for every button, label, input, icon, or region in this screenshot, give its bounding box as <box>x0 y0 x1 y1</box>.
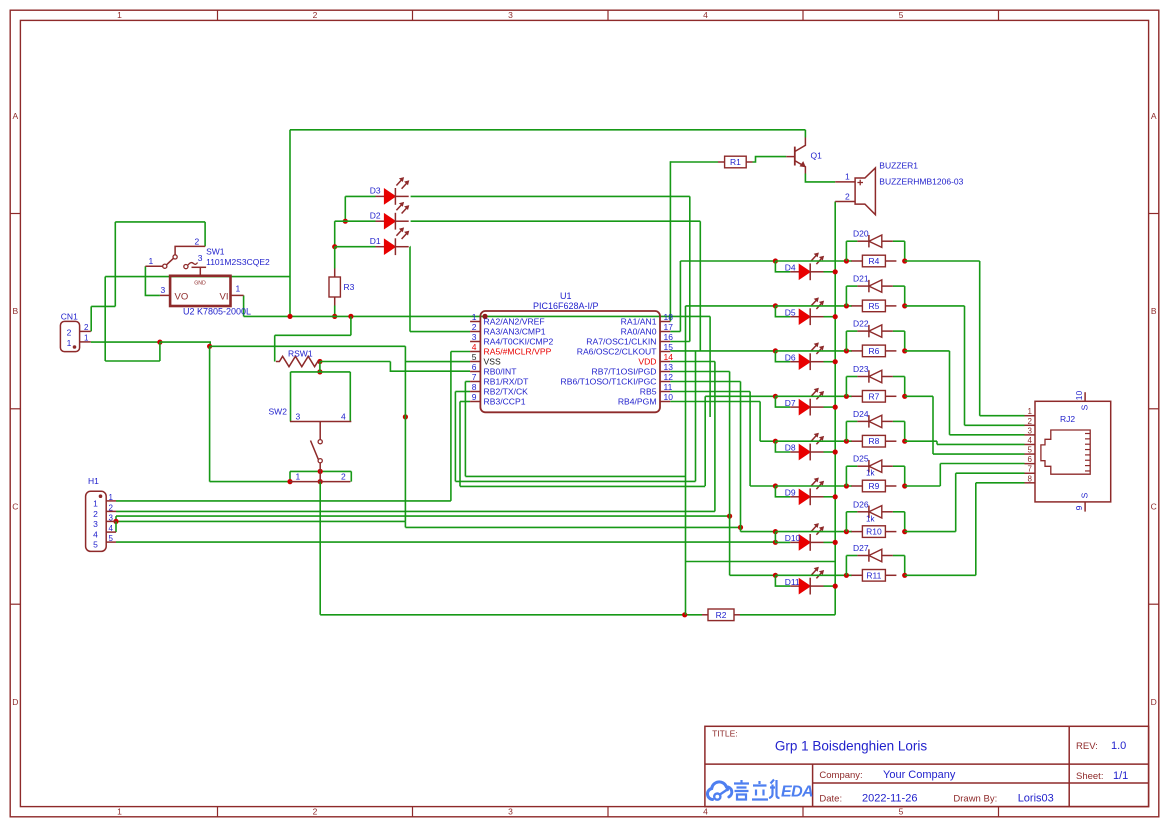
wire H1 pin1 riser <box>450 352 452 501</box>
wire SW2 pin1 feed <box>210 481 290 483</box>
svg-text:RJ2: RJ2 <box>1060 414 1075 424</box>
node R6 right junction <box>902 348 907 353</box>
wire R11 to RJ2 run <box>905 574 976 576</box>
wire Q1 emitter to buzzer pin1 <box>805 174 835 182</box>
wire pin2 RA3 line <box>410 331 470 333</box>
wire diode loop right riser D23 <box>904 377 906 397</box>
switch SW2 pins34 bar <box>290 421 351 423</box>
svg-text:RSW1: RSW1 <box>288 349 313 359</box>
wire diode loop top right D23 <box>893 376 905 378</box>
svg-text:D: D <box>12 697 18 707</box>
wire collector top rail <box>290 129 805 131</box>
svg-text:RB1/RX/DT: RB1/RX/DT <box>484 377 530 387</box>
node D10 led junction <box>773 540 778 545</box>
header H1 body <box>86 491 107 551</box>
wire D4 main <box>680 260 775 262</box>
wire D1 cathode drop <box>409 247 411 332</box>
svg-text:Drawn By:: Drawn By: <box>953 794 997 805</box>
node D9 branch junction <box>773 483 778 488</box>
switch SW1 pin2 arm <box>175 246 205 254</box>
wire pin8 drop <box>454 392 456 482</box>
wire RSW1 lower stub <box>319 362 321 372</box>
resistor R2 left lead <box>702 614 708 616</box>
U1 right pin stubs <box>660 321 670 323</box>
resistor R9 <box>851 485 862 487</box>
svg-text:SW1: SW1 <box>206 247 225 257</box>
node D10 branch junction <box>773 529 778 534</box>
svg-text:D2: D2 <box>370 211 381 221</box>
svg-text:1: 1 <box>84 334 89 343</box>
svg-text:1: 1 <box>93 498 98 508</box>
svg-text:8: 8 <box>472 382 477 392</box>
wire diode loop left riser D4 <box>845 241 847 261</box>
wire diode loop right riser D20 <box>904 241 906 261</box>
svg-text:12: 12 <box>664 372 674 382</box>
U2 pin1 lead <box>231 294 244 296</box>
svg-text:C: C <box>1151 502 1157 512</box>
node y516 right junction <box>727 514 732 519</box>
switch SW1 pin3 lead <box>192 266 207 268</box>
switch SW2 contact top <box>318 440 322 444</box>
svg-text:RA6/OSC2/CLKOUT: RA6/OSC2/CLKOUT <box>577 347 658 357</box>
svg-text:3: 3 <box>296 412 301 422</box>
wire R5 to RJ2 run <box>905 305 965 307</box>
svg-text:2: 2 <box>67 328 72 338</box>
resistor R11 <box>851 574 862 576</box>
wire R7 to RJ2 run <box>905 395 933 397</box>
wire R4 RJ2 entry <box>980 415 1025 417</box>
wire y306 jog <box>91 305 115 307</box>
svg-text:R8: R8 <box>868 436 879 446</box>
wire D7 branch jog <box>775 396 790 407</box>
svg-text:5: 5 <box>899 10 904 20</box>
svg-text:REV:: REV: <box>1076 741 1098 752</box>
svg-text:RB2/TX/CK: RB2/TX/CK <box>484 387 529 397</box>
node diode loop left junction row D4 <box>844 258 849 263</box>
wire R3 bottom <box>334 306 336 317</box>
svg-text:D10: D10 <box>785 533 801 543</box>
node diode loop left junction row D8 <box>844 439 849 444</box>
svg-text:R4: R4 <box>868 256 879 266</box>
U2 pin3 lead <box>160 294 170 296</box>
node R10 right junction <box>902 529 907 534</box>
wire R1 to Q1 base jog <box>753 157 787 162</box>
svg-text:VI: VI <box>220 292 229 303</box>
node D5 cathode junction <box>833 314 838 319</box>
svg-text:4: 4 <box>703 807 708 817</box>
svg-text:D25: D25 <box>853 454 869 464</box>
svg-text:D8: D8 <box>785 443 796 453</box>
wire diode loop top left D4 <box>846 240 857 242</box>
svg-text:2: 2 <box>93 509 98 519</box>
svg-text:D21: D21 <box>853 274 869 284</box>
node D6 cathode junction <box>833 359 838 364</box>
svg-text:EDA: EDA <box>781 784 813 801</box>
wire D11 main <box>730 574 776 576</box>
svg-text:U1: U1 <box>560 291 572 301</box>
wire Q1 collector drop <box>804 130 806 138</box>
svg-text:2: 2 <box>472 322 477 332</box>
transistor Q1 emitter <box>795 161 806 174</box>
buzzer BUZZER1 pin1 lead <box>835 181 855 183</box>
svg-text:1: 1 <box>67 338 72 348</box>
svg-text:2: 2 <box>195 237 200 247</box>
svg-text:9: 9 <box>1074 505 1084 510</box>
wire pin14 riser to H1 pin2 row <box>714 362 716 512</box>
resistor R1 left lead <box>718 161 725 163</box>
resistor R1 body <box>725 156 747 168</box>
diode D21 <box>857 285 869 287</box>
svg-text:RA7/OSC1/CLKIN: RA7/OSC1/CLKIN <box>586 337 656 347</box>
wire D6 branch jog <box>775 351 790 362</box>
wire R6 RJ2 riser <box>949 351 951 435</box>
svg-text:VSS: VSS <box>484 357 501 367</box>
wire x210 down to SW2 row <box>209 346 211 481</box>
node y527 right junction <box>738 525 743 530</box>
CN1 pin 2 lead <box>80 330 91 332</box>
svg-text:5: 5 <box>1028 446 1033 455</box>
wire buzzer pin2 long vertical x835 <box>834 202 836 615</box>
svg-text:2: 2 <box>1028 417 1033 426</box>
svg-text:1: 1 <box>472 312 477 322</box>
diode D20 <box>857 240 869 242</box>
transistor Q1 emitter arrow <box>800 161 806 167</box>
wire diode loop top left D7 <box>846 376 857 378</box>
svg-text:R6: R6 <box>868 346 879 356</box>
switch SW1 contact 3 <box>184 265 188 269</box>
transistor Q1 collector <box>795 138 806 152</box>
wire pin7 drop <box>464 382 466 477</box>
wire pin18 riser <box>669 161 671 321</box>
wire R6 RJ2 entry <box>950 434 1025 436</box>
svg-text:6: 6 <box>1028 455 1033 464</box>
svg-text:RA4/T0CKI/CMP2: RA4/T0CKI/CMP2 <box>484 337 554 347</box>
LED D8 <box>790 451 799 453</box>
wire diode loop right riser D26 <box>904 512 906 532</box>
wire x405 vertical <box>404 346 406 521</box>
node D7 cathode junction <box>833 405 838 410</box>
wire D7 main <box>705 395 775 397</box>
wire R10 RJ2 riser <box>955 473 957 531</box>
svg-text:7: 7 <box>1028 465 1033 474</box>
wire pin9 wrap <box>460 485 705 487</box>
wire diode loop right riser D27 <box>904 556 906 576</box>
svg-text:R5: R5 <box>868 301 879 311</box>
svg-text:9: 9 <box>472 392 477 402</box>
resistor R5 <box>851 305 862 307</box>
wire pin11 stub tie <box>670 391 750 393</box>
wire R2 row left <box>320 614 702 616</box>
svg-text:D5: D5 <box>785 307 796 317</box>
wire SW2 bottom right leg <box>350 471 352 481</box>
svg-text:3: 3 <box>508 10 513 20</box>
wire D1 cathode <box>409 246 412 248</box>
wire R2 row right <box>740 614 835 616</box>
wire pin13 stub tie <box>670 371 729 373</box>
wire D2 cathode long <box>411 220 701 222</box>
svg-text:11: 11 <box>664 382 673 392</box>
wire y561 link <box>686 561 836 563</box>
svg-text:1: 1 <box>109 493 114 502</box>
node VDD rail junction <box>403 414 408 419</box>
svg-text:D23: D23 <box>853 364 869 374</box>
svg-text:1.0: 1.0 <box>1111 740 1126 752</box>
svg-text:PIC16F628A-I/P: PIC16F628A-I/P <box>533 301 599 311</box>
wire D2 anode <box>335 220 376 222</box>
wire D8 cathode link <box>824 451 836 453</box>
node D2/D1 junction <box>332 244 337 249</box>
svg-text:A: A <box>1151 111 1157 121</box>
wire D8 main across <box>775 440 852 442</box>
svg-text:D9: D9 <box>785 488 796 498</box>
wire D1 anode <box>335 246 376 248</box>
node R4 right junction <box>902 258 907 263</box>
svg-text:Company:: Company: <box>819 770 862 781</box>
LED D7 <box>790 406 799 408</box>
wire x115 vertical <box>114 222 116 307</box>
switch SW2 lever <box>311 441 319 460</box>
node D3/D2 junction <box>343 219 348 224</box>
wire pin9 wrap riser <box>704 396 706 486</box>
svg-text:RA5/#MCLR/VPP: RA5/#MCLR/VPP <box>484 347 552 357</box>
wire diode loop right riser D21 <box>904 286 906 306</box>
wire SW2 pin3 riser <box>290 372 292 422</box>
node D9 cathode junction <box>833 494 838 499</box>
wire pin17 riser <box>679 261 681 332</box>
switch SW2 contact bottom <box>318 459 322 463</box>
svg-text:3: 3 <box>109 513 114 522</box>
node R7 right junction <box>902 394 907 399</box>
wire H1 pin3 long <box>116 520 405 522</box>
regulator U2 body <box>170 276 230 306</box>
wire y335 link <box>275 334 351 336</box>
svg-text:RB5: RB5 <box>640 387 657 397</box>
wire D3-D2 vertical <box>344 196 346 221</box>
svg-text:R10: R10 <box>866 527 882 537</box>
svg-text:Your Company: Your Company <box>883 769 956 781</box>
wire pin7 wrap <box>465 475 685 477</box>
svg-text:U2 K7805-2000L: U2 K7805-2000L <box>183 307 251 317</box>
wire R7 RJ2 entry <box>933 453 1025 455</box>
switch SW1 contact 2 <box>173 255 177 259</box>
op-amp U1 body <box>480 311 660 412</box>
wire pin8 wrap riser <box>695 351 697 482</box>
RJ2 jack outline <box>1041 430 1090 474</box>
wire +5V down drop <box>709 316 711 417</box>
svg-text:C: C <box>12 502 18 512</box>
node SW2 pin junction <box>318 479 323 484</box>
svg-text:3: 3 <box>93 519 98 529</box>
transistor Q1 bar <box>794 147 796 166</box>
node D6 branch junction <box>773 348 778 353</box>
wire R8 RJ2 riser <box>936 441 938 444</box>
wire pin8 stub tie <box>455 391 470 393</box>
CN1 pin 1 lead <box>80 341 91 343</box>
svg-text:2: 2 <box>313 10 318 20</box>
wire x105 vertical <box>104 277 106 361</box>
wire D7 cathode link <box>824 406 836 408</box>
wire SW2 top link <box>291 371 351 373</box>
svg-text:D4: D4 <box>785 263 796 273</box>
svg-text:S: S <box>1080 492 1090 498</box>
svg-text:Sheet:: Sheet: <box>1076 771 1103 782</box>
wire diode loop left riser D7 <box>845 377 847 397</box>
wire diode loop top right D20 <box>893 240 905 242</box>
wire D3 anode <box>345 195 375 197</box>
node R9 right junction <box>902 483 907 488</box>
node D4 branch junction <box>773 258 778 263</box>
svg-text:CN1: CN1 <box>61 312 78 322</box>
RJ2 bottom pin lead <box>1084 502 1086 512</box>
svg-text:VO: VO <box>175 292 189 303</box>
wire diode loop left riser D10 <box>845 512 847 532</box>
wire D9 cathode link <box>824 496 836 498</box>
svg-text:14: 14 <box>664 352 674 362</box>
node D8 branch junction <box>773 439 778 444</box>
wire R10 RJ2 entry <box>956 472 1025 474</box>
diode D22 <box>857 330 869 332</box>
wire diode loop top right D26 <box>893 511 905 513</box>
svg-text:BUZZER1: BUZZER1 <box>879 161 918 171</box>
svg-text:BUZZERHMB1206-03: BUZZERHMB1206-03 <box>879 177 963 187</box>
node +5V x350 junction <box>348 314 353 319</box>
svg-text:R1: R1 <box>730 157 741 167</box>
svg-text:1: 1 <box>117 10 122 20</box>
svg-text:S: S <box>1080 404 1090 410</box>
wire H1 pin3-pin4 tie <box>115 521 117 532</box>
wire R9 to RJ2 run <box>905 485 941 487</box>
svg-text:B: B <box>12 306 18 316</box>
wire diode loop top left D8 <box>846 420 857 422</box>
wire D10 cathode link <box>824 541 836 543</box>
wire pin12 stub tie <box>670 381 740 383</box>
wire diode loop top left D6 <box>846 330 857 332</box>
svg-text:2: 2 <box>84 323 89 332</box>
svg-text:Date:: Date: <box>819 794 842 805</box>
H1 pin1 marker <box>99 494 103 498</box>
diode D23 <box>857 376 869 378</box>
wire diode loop left riser D5 <box>845 286 847 306</box>
diode D26 <box>857 511 869 513</box>
svg-text:RB7/T1OSI/PGD: RB7/T1OSI/PGD <box>592 367 657 377</box>
wire pin8 wrap <box>455 480 695 482</box>
node diode loop left junction row D11 <box>844 573 849 578</box>
svg-text:1k: 1k <box>866 469 875 478</box>
svg-text:D26: D26 <box>853 499 869 509</box>
svg-text:2022-11-26: 2022-11-26 <box>862 793 917 805</box>
svg-text:10: 10 <box>1074 391 1084 401</box>
wire D4 main across <box>775 260 852 262</box>
ruler row ticks <box>10 213 20 215</box>
node +5V collector junction <box>287 314 292 319</box>
LED D1 <box>376 246 385 248</box>
wire R7 RJ2 riser <box>932 396 934 454</box>
svg-text:3: 3 <box>508 807 513 817</box>
svg-text:RB0/INT: RB0/INT <box>484 367 518 377</box>
wire D3 to pin16 riser <box>689 196 691 341</box>
wire RSW1 left riser <box>274 335 276 361</box>
wire H1 pin5 long <box>116 541 775 543</box>
svg-text:D3: D3 <box>370 186 381 196</box>
buzzer BUZZER1 pin2 lead <box>835 201 855 203</box>
node R8 right junction <box>902 439 907 444</box>
wire D9 main <box>750 485 775 487</box>
node diode loop left junction row D10 <box>844 529 849 534</box>
wire diode loop left riser D6 <box>845 331 847 351</box>
svg-text:R2: R2 <box>716 610 727 620</box>
svg-text:6: 6 <box>472 362 477 372</box>
diode D27 <box>857 555 869 557</box>
svg-text:RA0/AN0: RA0/AN0 <box>621 327 657 337</box>
node D10 cathode junction <box>833 540 838 545</box>
wire diode loop top right D27 <box>893 555 905 557</box>
svg-text:D: D <box>1151 697 1157 707</box>
svg-text:RB3/CCP1: RB3/CCP1 <box>484 397 526 407</box>
wire U2 VI drop <box>243 295 245 316</box>
ruler column ticks <box>217 10 219 20</box>
wire RSW1 jog down <box>390 362 470 372</box>
svg-text:4: 4 <box>1028 436 1033 445</box>
wire pin16 stub tie <box>670 341 690 343</box>
wire diode loop top left D9 <box>846 465 857 467</box>
node diode loop left junction row D7 <box>844 394 849 399</box>
node D11 branch junction <box>773 573 778 578</box>
wire pin7 stub tie <box>465 381 470 383</box>
LED D9 <box>790 496 799 498</box>
resistor R2 body <box>708 609 734 621</box>
svg-text:18: 18 <box>664 312 674 322</box>
svg-text:16: 16 <box>664 332 674 342</box>
wire D4 branch jog <box>775 261 790 272</box>
node R3 bottom junction <box>332 314 337 319</box>
svg-text:D7: D7 <box>785 398 796 408</box>
svg-text:3: 3 <box>1028 426 1033 435</box>
svg-text:1/1: 1/1 <box>1113 770 1128 782</box>
EasyEDA logo <box>707 782 731 800</box>
wire R11 RJ2 entry <box>976 482 1025 484</box>
node D8 cathode junction <box>833 449 838 454</box>
node diode loop left junction row D9 <box>844 483 849 488</box>
wire CN1 pin1 to x210 <box>160 342 210 346</box>
wire R9 RJ2 riser <box>939 464 941 487</box>
svg-text:17: 17 <box>664 322 674 332</box>
wire diode loop top right D22 <box>893 330 905 332</box>
resistor R1 right lead <box>746 161 752 163</box>
svg-text:B: B <box>1151 306 1157 316</box>
wire SW1 pin1 to U2 VO <box>145 266 160 295</box>
wire D9 main across <box>775 485 852 487</box>
svg-text:R3: R3 <box>344 282 355 292</box>
U1 left pin stubs <box>470 321 480 323</box>
wire H1 pin2 long <box>116 510 715 512</box>
buzzer plus sign <box>857 182 863 184</box>
wire CN1 pin2 riser <box>90 306 92 331</box>
wire y346 rail <box>210 345 406 347</box>
wire detour riser <box>159 342 161 361</box>
svg-text:Loris03: Loris03 <box>1018 793 1054 805</box>
RJ2 top pin lead <box>1084 392 1086 401</box>
resistor R3 bottom lead <box>334 297 336 306</box>
wire D11 main across <box>775 574 852 576</box>
wire D6 cathode link <box>824 361 836 363</box>
svg-text:5: 5 <box>472 352 477 362</box>
wire diode loop top left D10 <box>846 511 857 513</box>
node U1 pin1 inner dot <box>483 314 488 319</box>
LED D10 <box>790 541 799 543</box>
wire diode loop left riser D11 <box>845 556 847 576</box>
svg-text:1k: 1k <box>866 514 875 523</box>
svg-text:4: 4 <box>93 530 98 540</box>
